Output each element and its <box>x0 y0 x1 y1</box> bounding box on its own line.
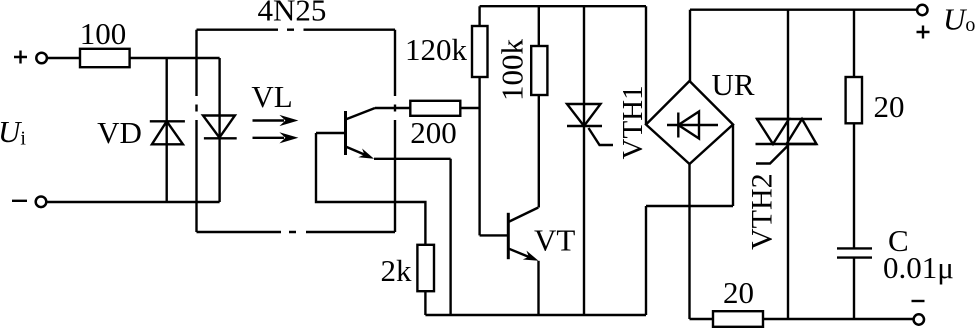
bridge rectifier UR <box>646 81 733 164</box>
wire 2k-bottom <box>424 291 426 315</box>
terminal minus-output <box>912 301 925 325</box>
terminal minus-input <box>12 197 46 208</box>
resistor 200 <box>410 101 460 116</box>
wire main-vertical-left <box>478 6 480 235</box>
svg-text:VD: VD <box>97 115 142 150</box>
svg-text:200: 200 <box>410 115 457 150</box>
wire base loop <box>316 133 425 245</box>
resistor 120k <box>472 26 488 77</box>
wire bottom rail right <box>690 318 914 320</box>
wire input-bottom <box>46 201 219 203</box>
resistor 100k <box>531 46 547 95</box>
wire emitter-drop <box>374 159 451 315</box>
svg-text:120k: 120k <box>405 32 468 67</box>
svg-text:20: 20 <box>723 275 754 310</box>
wire rail1-to-bridge <box>645 6 647 124</box>
svg-text:0.01μ: 0.01μ <box>883 250 954 285</box>
diode VD <box>150 58 185 202</box>
capacitor C <box>837 248 872 319</box>
wire bottom-left rail <box>425 314 646 316</box>
svg-text:VL: VL <box>251 79 292 114</box>
wire 200-to-junction <box>460 107 479 109</box>
wire 20-top-branch <box>853 10 855 77</box>
resistor 20 right <box>846 77 862 123</box>
svg-text:Uo: Uo <box>943 2 975 37</box>
light arrow 1 <box>253 115 299 126</box>
wire bridge-top <box>689 10 691 81</box>
wire top rail2 <box>690 8 917 10</box>
resistor 2k <box>417 245 434 291</box>
svg-text:VTH1: VTH1 <box>617 85 649 159</box>
triac VTH2 <box>756 10 823 319</box>
LED diode VL <box>203 58 237 202</box>
wire input-top-left <box>47 57 80 59</box>
wire 20-to-C <box>853 123 855 248</box>
light arrow 2 <box>253 132 299 143</box>
wire 100k-branch <box>538 6 540 207</box>
wire bridge-right-to-rail <box>646 125 733 316</box>
svg-text:100k: 100k <box>495 39 530 102</box>
transistor VT <box>480 208 541 266</box>
wire bridge-bottom <box>688 164 690 319</box>
svg-text:Ui: Ui <box>0 114 26 150</box>
wire collector to 200 <box>375 107 410 109</box>
wire VT-emitter-drop <box>537 261 539 315</box>
svg-text:4N25: 4N25 <box>258 0 327 28</box>
svg-text:20: 20 <box>874 89 905 124</box>
thyristor VTH1 <box>567 6 613 315</box>
phototransistor <box>316 108 376 163</box>
svg-text:UR: UR <box>711 67 754 102</box>
svg-text:VT: VT <box>534 223 575 258</box>
terminal plus-output <box>917 5 930 39</box>
svg-text:100: 100 <box>80 16 127 51</box>
resistor 100 <box>80 49 130 67</box>
terminal plus-input <box>14 51 47 64</box>
resistor 20 bottom <box>713 311 763 327</box>
wire top rail1 <box>480 5 646 7</box>
optocoupler box 4N25 <box>197 30 396 232</box>
wire input-top-right <box>130 57 220 59</box>
svg-text:2k: 2k <box>381 253 413 288</box>
svg-text:VTH2: VTH2 <box>746 173 779 250</box>
